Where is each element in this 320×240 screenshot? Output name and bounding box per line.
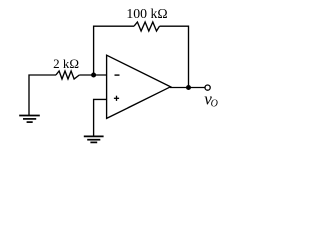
node A junction dot (inverting input / feedback) (91, 73, 96, 78)
resistor R1 (2 kΩ) (56, 71, 79, 79)
ground G2 (84, 136, 104, 142)
resistor R2 (100 kΩ) (134, 22, 160, 31)
op-amp U1 non-inverting input marker + (114, 96, 119, 101)
output terminal circle (205, 85, 210, 90)
wire: feedback left vertical from node A up to top wire (94, 26, 134, 75)
label vO (output voltage) (204, 90, 218, 110)
svg-text:O: O (211, 99, 218, 110)
wire: non-inverting input to ground G2 (94, 99, 107, 136)
wire: op-amp output to terminal (170, 87, 205, 89)
svg-text:100 kΩ: 100 kΩ (126, 6, 167, 21)
output node junction dot (186, 85, 191, 90)
op-amp U1 (107, 55, 171, 118)
wire: top feedback right lead and vertical drop to output node (160, 26, 189, 87)
wire: R1 right lead to op-amp inverting input (79, 74, 106, 76)
op-amp U1 inverting input marker − (115, 74, 120, 76)
wire: left input corner, horizontal lead into R1 and vertical drop to ground G1 (29, 75, 56, 115)
svg-text:2 kΩ: 2 kΩ (53, 56, 79, 71)
ground G1 (19, 116, 40, 123)
